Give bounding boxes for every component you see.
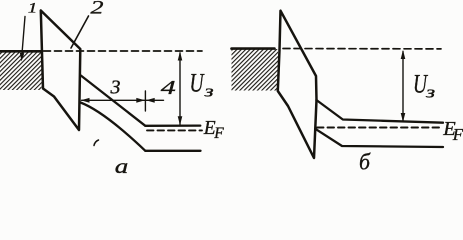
svg-text:1: 1 [28,1,38,17]
svg-text:2: 2 [91,0,105,19]
svg-text:F: F [213,125,224,142]
svg-text:4: 4 [161,77,176,99]
svg-text:б: б [359,149,371,174]
svg-text:U: U [190,69,206,98]
svg-text:F: F [452,125,463,144]
svg-text:з: з [425,82,435,101]
svg-text:а: а [115,154,129,176]
svg-text:з: з [203,82,213,101]
svg-text:3: 3 [110,77,121,99]
